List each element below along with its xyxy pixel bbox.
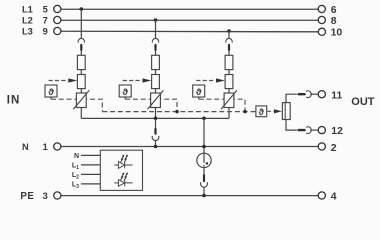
wire PE line [61, 195, 318, 197]
node L3 tap junction [227, 29, 231, 33]
svg-text:12: 12 [331, 126, 343, 137]
node L1 tap junction [80, 7, 84, 11]
varistor branch3 [224, 93, 234, 108]
wire branch2 varistor to bus [155, 108, 157, 119]
wire branch3 pin to fuse [228, 51, 230, 56]
wire contact to terminal 11 [286, 94, 297, 102]
wire plug to N line [155, 140, 157, 146]
thermal trip arrow branch1 [68, 78, 77, 82]
terminal 5 [54, 5, 61, 12]
connector male pin bus-N [154, 129, 156, 134]
wire gas tube to plug [203, 168, 205, 175]
terminal 9 [54, 27, 61, 34]
svg-text:ϑ: ϑ [122, 87, 128, 98]
wire branch2 between elements [155, 70, 157, 75]
connector female contact branch3 [226, 38, 233, 42]
svg-text:L1: L1 [72, 163, 79, 171]
wire theta stub branch1 [50, 97, 52, 99]
dashed signal link branch2 [125, 99, 177, 111]
connector female contact bus-N [152, 136, 159, 141]
svg-text:7: 7 [43, 15, 48, 25]
wire branch1 drop from L1 [80, 9, 82, 39]
svg-text:3: 3 [43, 191, 48, 201]
node bus junction to N link [154, 117, 158, 121]
svg-text:IN: IN [7, 95, 21, 107]
svg-text:ϑ: ϑ [196, 87, 202, 98]
wire to terminal 11 [310, 93, 318, 95]
terminal 10 [318, 28, 325, 35]
wire L1 line [61, 8, 318, 10]
svg-text:OUT: OUT [351, 96, 375, 108]
connector female contact branch1 [78, 38, 85, 42]
node L2 tap junction [154, 18, 158, 22]
wire branch1 between elements [80, 70, 82, 75]
svg-text:2: 2 [331, 143, 337, 154]
connector male pin branch2 [154, 45, 156, 50]
wire plug to PE line [203, 187, 205, 196]
svg-text:1: 1 [43, 142, 48, 152]
svg-text:L3: L3 [22, 26, 33, 36]
wire branch2 to varistor [155, 89, 157, 93]
svg-text:L3: L3 [72, 182, 79, 190]
connector male pin gas tube-PE [203, 175, 205, 181]
terminal 4 [318, 192, 325, 199]
connector male pin branch3 [228, 45, 230, 50]
wire to terminal 12 [310, 129, 318, 131]
wire branch1 pin to fuse [80, 51, 82, 56]
svg-text:N: N [22, 142, 29, 152]
status indicator box [100, 150, 142, 190]
wire indicator stub L2 [81, 173, 100, 175]
node N junction at bus link [154, 145, 158, 149]
svg-text:11: 11 [331, 91, 342, 102]
wire branch3 between elements [228, 70, 230, 75]
wire branch2 drop from L2 [155, 20, 157, 39]
node bus junction to gas tube [202, 117, 206, 121]
terminal 7 [54, 16, 61, 23]
gas discharge tube [197, 153, 211, 167]
svg-text:8: 8 [331, 16, 337, 27]
connector female contact out 12 [306, 127, 311, 134]
thermal trip arrow branch3 [216, 78, 225, 82]
wire theta stub branch3 [198, 97, 200, 99]
terminal 2 [318, 143, 325, 150]
thermal trip dashed link branch1 [49, 80, 68, 82]
disconnector element upper branch1 [77, 55, 85, 69]
terminal 8 [318, 16, 325, 23]
wire branch3 to varistor [228, 89, 230, 93]
wire indicator stub L3 [81, 183, 100, 185]
thermal monitor box branch1 [45, 85, 57, 97]
wire indicator stub N [81, 154, 100, 156]
dashed signal link branch1 [51, 99, 102, 111]
wire gas tube drop [203, 118, 205, 153]
svg-text:ϑ: ϑ [259, 107, 265, 117]
disconnector element lower branch2 [152, 75, 160, 89]
varistor branch2 [151, 93, 161, 108]
thermal trip dashed link branch2 [123, 80, 142, 82]
remote contact actuator [282, 103, 290, 120]
signal trip arrow dashes [267, 110, 274, 112]
svg-text:5: 5 [43, 4, 48, 14]
terminal 1 [54, 143, 61, 150]
svg-text:ϑ: ϑ [48, 87, 54, 98]
connector female contact gas tube-PE [201, 182, 208, 187]
wire L3 line [61, 30, 318, 33]
svg-text:10: 10 [331, 28, 343, 39]
disconnector element upper branch2 [152, 55, 160, 69]
wire indicator stub L1 [81, 164, 100, 166]
dashed signal bus [102, 111, 256, 113]
thermal trip dashed link branch3 [196, 80, 215, 82]
thermal monitor box signal output [256, 106, 267, 117]
terminal 3 [54, 192, 61, 199]
node signal bus junction branch2 [175, 110, 178, 113]
connector male pin out 11 [299, 93, 305, 95]
svg-text:L2: L2 [22, 15, 33, 25]
node signal bus junction branch3 [243, 110, 246, 113]
svg-text:L2: L2 [72, 172, 79, 180]
wire branch2 pin to fuse [155, 51, 157, 56]
thermal trip arrow branch2 [143, 78, 152, 82]
svg-text:4: 4 [331, 192, 337, 203]
varistor branch1 [76, 93, 86, 108]
wire common varistor bus [81, 117, 229, 119]
svg-text:9: 9 [43, 26, 48, 36]
terminal 6 [318, 5, 325, 12]
disconnector element lower branch3 [225, 75, 233, 89]
thermal monitor box branch2 [119, 85, 131, 97]
svg-text:6: 6 [331, 5, 337, 16]
wire theta stub branch2 [124, 97, 126, 99]
wire branch1 varistor to bus [80, 108, 82, 119]
wire contact to terminal 12 [286, 120, 297, 131]
connector female contact out 11 [306, 91, 311, 98]
thermal monitor box branch3 [193, 85, 205, 97]
wire branch1 to varistor [80, 89, 82, 93]
LED indicator 1 [114, 162, 132, 169]
dashed signal link branch3 [199, 99, 245, 111]
signal trip arrow [274, 109, 282, 113]
wire branch3 drop from L3 [228, 31, 230, 39]
connector female contact branch2 [152, 38, 159, 42]
wire bus to N plug [155, 118, 157, 128]
disconnector element upper branch3 [225, 55, 233, 69]
connector male pin out 12 [299, 129, 305, 131]
LED indicator 2 [114, 180, 132, 187]
node N junction at gas tube [202, 145, 206, 149]
wire L2 line [61, 19, 318, 21]
connector male pin branch1 [80, 45, 82, 50]
node PE junction [202, 194, 206, 198]
wire branch3 varistor to bus [228, 108, 230, 119]
wire N line [61, 146, 318, 148]
svg-text:PE: PE [20, 191, 34, 202]
disconnector element lower branch1 [77, 75, 85, 89]
svg-text:N: N [74, 153, 79, 160]
terminal 12 [318, 127, 325, 134]
terminal 11 [318, 91, 325, 98]
svg-text:L1: L1 [22, 4, 33, 14]
